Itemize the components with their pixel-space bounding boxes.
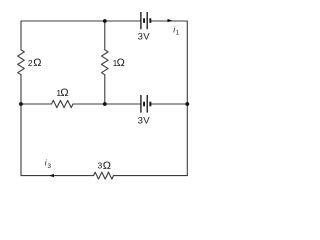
wire top edge right of battery	[151, 20, 187, 22]
current arrow i1 (top, pointing right)	[168, 19, 173, 22]
svg-text:Ω: Ω	[60, 87, 68, 99]
battery V2 long plate 1	[140, 95, 142, 113]
battery V2 long plate 2	[146, 95, 148, 113]
wire middle horizontal left	[21, 103, 52, 105]
wire middle horizontal right of battery	[151, 103, 187, 105]
wire right edge	[186, 21, 188, 176]
wire left edge lower	[20, 75, 22, 176]
svg-text:1: 1	[176, 31, 180, 37]
battery V2 short plate 2	[149, 102, 151, 107]
svg-text:3: 3	[138, 31, 143, 42]
svg-text:V: V	[143, 31, 150, 42]
battery V2 3V (middle)	[141, 95, 150, 113]
svg-text:Ω: Ω	[117, 57, 125, 69]
battery V1 long plate 1	[140, 12, 142, 29]
svg-text:2: 2	[28, 58, 33, 68]
svg-text:Ω: Ω	[33, 57, 41, 69]
svg-text:V: V	[143, 115, 150, 126]
battery V2 short plate 1	[143, 102, 145, 107]
battery V1 long plate 2	[146, 12, 148, 29]
battery V1 short plate 1	[143, 18, 145, 23]
current arrow i3 (bottom, pointing left)	[49, 174, 54, 177]
svg-text:3: 3	[98, 160, 103, 170]
wire middle vertical upper	[104, 21, 106, 50]
svg-text:3: 3	[47, 163, 51, 170]
svg-text:Ω: Ω	[103, 160, 111, 172]
wire bottom edge left of resistor	[21, 175, 94, 177]
wire top edge	[21, 20, 140, 22]
wire bottom edge right of resistor	[114, 175, 188, 177]
junction node at right-middle	[185, 102, 189, 106]
junction node at left-middle	[19, 102, 23, 106]
junction node at top-middle	[103, 19, 107, 23]
svg-text:3: 3	[138, 115, 143, 126]
wire middle vertical lower	[104, 75, 106, 104]
resistor 1ohm (middle vertical zigzag)	[102, 50, 109, 75]
resistor 1ohm (middle horizontal zigzag)	[52, 100, 74, 107]
resistor R 2ohm (left edge vertical zigzag)	[18, 50, 25, 75]
wire left edge upper	[20, 21, 22, 50]
battery V1 short plate 2	[149, 18, 151, 23]
resistor 3ohm (bottom horizontal zigzag)	[94, 172, 114, 179]
junction node at center	[103, 102, 107, 106]
wire middle horizontal center	[73, 103, 140, 105]
battery V1 3V (top)	[141, 12, 150, 29]
